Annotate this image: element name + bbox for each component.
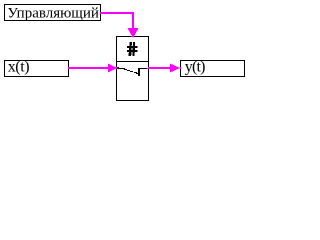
svg-text:y(t): y(t) — [185, 59, 205, 76]
svg-text:Управляющий: Управляющий — [7, 5, 99, 21]
svg-text:x(t): x(t) — [8, 59, 30, 76]
